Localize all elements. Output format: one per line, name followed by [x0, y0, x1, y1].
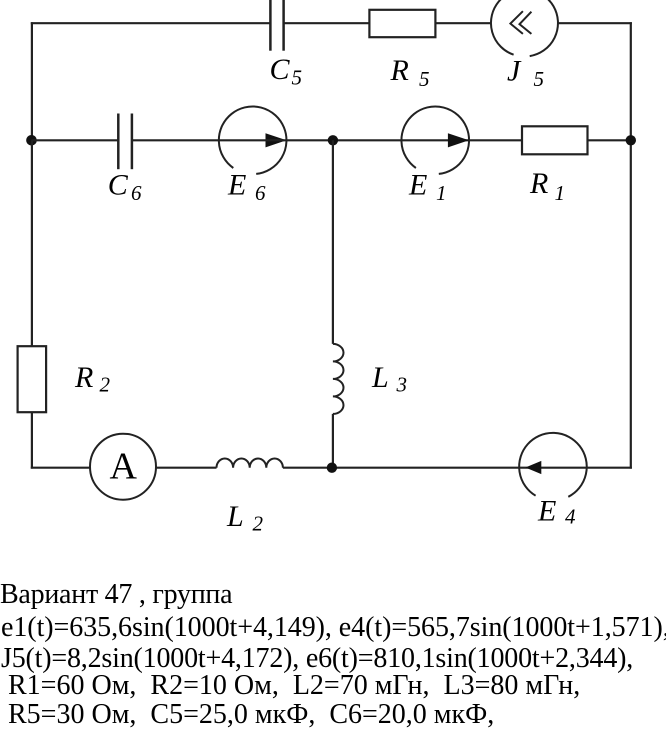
- text line 4: R1 R2 L2 L3 values: [1, 672, 580, 700]
- svg-text:C: C: [108, 168, 129, 201]
- node dot bottom (middle): [327, 463, 337, 473]
- resistor R2: [18, 346, 46, 412]
- wire row2: R1 to right node: [588, 139, 631, 141]
- EMF source E4: [519, 433, 587, 497]
- label J5: [507, 55, 544, 92]
- label C6: [108, 168, 142, 205]
- EMF source E6: [219, 106, 287, 173]
- svg-text:3: 3: [396, 373, 408, 397]
- svg-text:1: 1: [555, 181, 566, 205]
- svg-text:5: 5: [419, 67, 430, 91]
- label L2: [226, 500, 264, 536]
- wire row2: left node to C6: [32, 139, 119, 141]
- capacitor C5: [270, 0, 283, 51]
- svg-text:L: L: [226, 500, 244, 533]
- svg-text:L: L: [371, 361, 389, 394]
- svg-text:2: 2: [253, 512, 264, 536]
- wire top horizontal: R5 to J5: [435, 22, 491, 24]
- resistor R5: [369, 10, 435, 37]
- svg-text:4: 4: [565, 505, 576, 529]
- capacitor C6: [118, 114, 132, 170]
- node dot right (row 2): [626, 135, 636, 145]
- svg-text:J: J: [507, 55, 522, 88]
- current source J5: [491, 0, 558, 56]
- svg-text:R: R: [390, 54, 409, 87]
- svg-text:E: E: [408, 168, 427, 201]
- wire row2: E6 through middle node to E1: [252, 139, 522, 141]
- node dot left (row 2): [26, 135, 37, 146]
- ammeter A: [90, 434, 156, 500]
- wire row2: C6 to E6: [132, 139, 252, 141]
- svg-text:R: R: [74, 361, 93, 394]
- svg-text:1: 1: [436, 181, 447, 205]
- label R1: [529, 167, 565, 205]
- wire top horizontal: C5 to R5: [284, 22, 370, 24]
- svg-text:6: 6: [255, 181, 266, 205]
- svg-text:2: 2: [100, 373, 111, 397]
- wire top left vertical segment: [31, 22, 33, 140]
- wire bottom: ammeter to L2: [156, 467, 217, 469]
- wire left vertical: node to R2: [31, 140, 33, 346]
- wire middle vertical: L3 to bottom node: [332, 414, 334, 468]
- text line 3: J5 e6 equations: [1, 645, 633, 673]
- wire bottom: left corner to ammeter: [31, 467, 90, 469]
- label C5: [270, 53, 303, 90]
- label E6: [227, 168, 266, 205]
- wire top horizontal: J5 to right corner: [558, 22, 632, 24]
- svg-text:5: 5: [534, 67, 545, 91]
- wire left vertical: R2 to bottom corner: [31, 412, 33, 468]
- resistor R1: [522, 126, 588, 154]
- svg-text:6: 6: [131, 181, 142, 205]
- label E1: [408, 168, 447, 205]
- svg-text:5: 5: [292, 66, 303, 90]
- label L3: [371, 361, 407, 397]
- svg-text:A: A: [110, 446, 138, 488]
- text line 2: e1 e4 equations: [1, 614, 666, 642]
- svg-text:E: E: [537, 495, 556, 528]
- svg-text:C: C: [270, 53, 291, 86]
- svg-text:E: E: [227, 168, 246, 201]
- node dot middle (row 2): [328, 135, 338, 145]
- EMF source E1: [401, 106, 469, 173]
- wire right vertical: [630, 22, 632, 468]
- text line 5: R5 C5 C6 values: [1, 701, 494, 729]
- wire top horizontal: left corner to C5: [31, 22, 271, 24]
- label E4: [537, 495, 576, 529]
- wire middle vertical: node to L3: [332, 140, 334, 344]
- inductor L3: [333, 344, 344, 414]
- svg-text:R: R: [529, 167, 548, 200]
- label R5: [390, 54, 430, 91]
- wire bottom: L2 to bottom node to E4 to right corner: [283, 467, 632, 469]
- label R2: [74, 361, 111, 397]
- text line 1: variant heading: [0, 581, 232, 609]
- inductor L2: [217, 458, 283, 467]
